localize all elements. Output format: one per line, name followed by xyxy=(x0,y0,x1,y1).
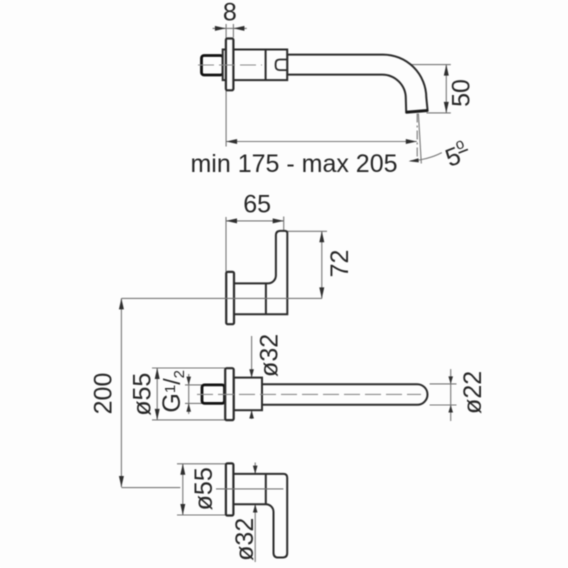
inner socket xyxy=(276,60,288,71)
svg-text:200: 200 xyxy=(90,373,118,415)
inlet stub xyxy=(202,56,224,76)
centerline xyxy=(216,488,283,490)
dimension line 200 xyxy=(120,298,122,487)
arrow right of 8 dim xyxy=(233,26,244,31)
stem joint line xyxy=(265,283,267,314)
5 deg reference lines xyxy=(416,114,418,164)
svg-text:ø32: ø32 xyxy=(231,518,259,561)
stem joint line xyxy=(265,474,267,504)
dimension o32 xyxy=(251,336,253,419)
faucet body xyxy=(234,378,262,411)
svg-text:50: 50 xyxy=(448,79,476,107)
dimension o55 xyxy=(152,367,225,369)
handle flange xyxy=(226,272,234,324)
dimension o32 xyxy=(254,463,256,563)
dimension line 50 xyxy=(445,65,447,113)
svg-text:8: 8 xyxy=(223,0,237,27)
5 deg leader arc xyxy=(410,153,442,161)
dimension o22 xyxy=(430,383,457,385)
spout tube xyxy=(287,55,427,113)
center/extension line through handle xyxy=(121,297,322,299)
connector to bottom view center xyxy=(121,487,180,489)
dimension 72 xyxy=(287,230,327,232)
wire centerline top view xyxy=(198,64,262,66)
spout tube side view xyxy=(262,384,427,405)
aerator face at tip (thick tilted band) xyxy=(406,111,428,113)
svg-text:65: 65 xyxy=(243,191,271,219)
extension lines for 50 dim xyxy=(362,64,451,66)
svg-text:ø32: ø32 xyxy=(255,334,283,377)
centerline xyxy=(197,393,421,395)
arrow left of 8 dim xyxy=(215,26,226,31)
label 5 deg xyxy=(440,134,473,172)
svg-text:72: 72 xyxy=(326,250,354,278)
label G1/2 thread xyxy=(158,370,188,413)
dimension o55 xyxy=(177,463,226,465)
extension line left of flange (8 dim + min/max dim) xyxy=(225,24,227,147)
dimension 65 xyxy=(225,217,227,272)
wall flange xyxy=(226,39,234,91)
inlet stub xyxy=(202,385,225,404)
svg-text:min 175 - max 205: min 175 - max 205 xyxy=(190,150,397,178)
dimension line min 175 - max 205 xyxy=(226,141,417,143)
handle lever side view xyxy=(234,231,287,314)
body xyxy=(223,50,288,81)
handle lever front view xyxy=(233,474,287,558)
svg-text:ø22: ø22 xyxy=(459,371,487,414)
svg-text:ø55: ø55 xyxy=(190,467,218,510)
body divider xyxy=(265,50,267,81)
handle flange xyxy=(226,463,234,515)
dimension line 8 xyxy=(213,27,247,29)
svg-text:ø55: ø55 xyxy=(129,373,157,416)
wall flange xyxy=(225,368,234,420)
dimension G1/2 xyxy=(185,384,202,386)
